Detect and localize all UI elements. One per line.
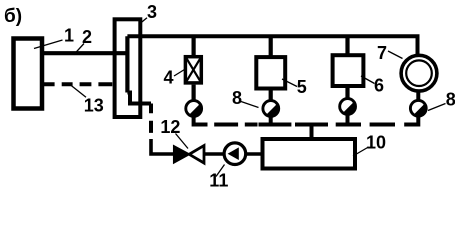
wire return tee bar xyxy=(295,123,328,127)
hydraulic separator 3 xyxy=(115,19,141,117)
leader to 1 xyxy=(34,40,63,49)
wire pump to return corner xyxy=(194,116,208,125)
wire valve to pump 11 xyxy=(204,152,224,155)
collector 10 xyxy=(263,139,356,169)
boiler 1 xyxy=(14,39,43,109)
wire return bar under pump 6 xyxy=(336,123,361,127)
wire dashed return 13 (boiler return) xyxy=(44,82,112,86)
svg-text:1: 1 xyxy=(64,26,74,46)
leader to 6 xyxy=(361,76,375,84)
wire pipe 2 (boiler supply) xyxy=(42,51,127,55)
svg-text:5: 5 xyxy=(297,77,307,97)
wire dashed return segment xyxy=(370,123,395,127)
wire supply riser inside separator xyxy=(125,36,129,92)
svg-text:4: 4 xyxy=(164,68,174,88)
leader to 13 xyxy=(72,86,87,98)
wire branch drop to heat exchanger 5 xyxy=(269,36,273,57)
pump 8 under exchanger 6 xyxy=(340,99,356,115)
wire exchanger 6 to pump xyxy=(345,88,349,99)
leader to 11 xyxy=(216,165,225,177)
svg-text:13: 13 xyxy=(84,96,104,116)
pump 8 under tank 7 xyxy=(410,100,426,116)
svg-text:11: 11 xyxy=(209,171,228,191)
wire tee stub to collector 10 xyxy=(310,127,314,139)
svg-text:7: 7 xyxy=(377,43,387,63)
wire top supply main with corner down to tank 7 xyxy=(127,36,417,54)
leader to 10 xyxy=(353,147,369,156)
wire pump 5 to return xyxy=(269,116,273,127)
wire pump 11 to collector 10 xyxy=(246,152,262,155)
wire dashed return drop to valve 12 xyxy=(149,104,153,133)
expansion tank 7 (double circle) xyxy=(401,55,437,91)
svg-text:10: 10 xyxy=(366,132,386,152)
wire return bar under pump 5 xyxy=(259,123,292,127)
leader to 4 xyxy=(174,70,185,77)
leader to 3 xyxy=(140,18,147,24)
leader to 7 xyxy=(388,51,403,59)
valve 12 (right open triangle) xyxy=(189,146,204,163)
wire tank 7 to pump xyxy=(416,92,420,100)
heat exchanger 5 xyxy=(256,57,285,88)
svg-text:8: 8 xyxy=(446,90,455,110)
heat exchanger 6 xyxy=(333,55,364,86)
pump 8 under exchanger 5 xyxy=(263,101,279,117)
svg-text:3: 3 xyxy=(147,2,157,22)
wire return step inside separator xyxy=(127,93,151,104)
wire branch drop to filter 4 xyxy=(192,36,196,55)
svg-text:2: 2 xyxy=(82,27,92,47)
valve 12 (left filled triangle) xyxy=(174,146,190,163)
wire dashed return main segments xyxy=(214,123,257,127)
svg-text:6: 6 xyxy=(374,76,384,96)
wire return corner at pump under 7 xyxy=(404,116,418,125)
wire pump 6 to return xyxy=(346,114,350,127)
filter 4 (rect with X) xyxy=(185,57,201,83)
svg-text:12: 12 xyxy=(160,117,180,137)
pump 8 under filter 4 xyxy=(186,101,202,117)
svg-text:б): б) xyxy=(4,6,22,27)
wire branch drop to heat exchanger 6 xyxy=(345,36,349,56)
leader to 2 xyxy=(74,44,84,55)
svg-text:8: 8 xyxy=(232,88,242,108)
leader to 8 left xyxy=(241,102,259,108)
wire exchanger 5 to pump xyxy=(269,90,273,101)
leader to 12 xyxy=(176,134,189,149)
wire filter 4 to pump xyxy=(192,85,196,100)
leader to 5 xyxy=(282,79,297,87)
pump 11 (circle with left triangle) xyxy=(224,143,246,165)
leader to 8 right xyxy=(428,104,446,111)
